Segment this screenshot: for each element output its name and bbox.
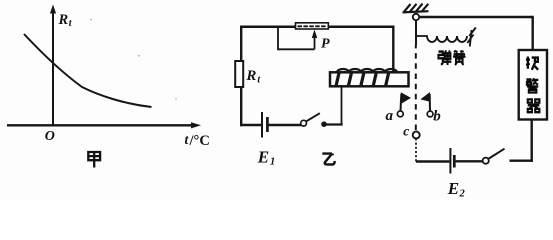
graph x-axis: [7, 122, 201, 128]
svg-text:R: R: [58, 12, 69, 28]
label 乙 (circuit B caption): [322, 153, 334, 164]
rheostat (slide resistor) box: [296, 23, 329, 29]
svg-text:t: t: [69, 18, 73, 29]
wiper arrow P: [312, 30, 317, 50]
label 簧: [453, 51, 465, 65]
contact a triangle: [401, 92, 411, 104]
wire: bottom rail left of battery: [416, 160, 449, 162]
armature solid upper: [415, 20, 417, 45]
wire: alarm right rail lower: [531, 120, 533, 162]
wire: circuit B bottom rail to battery: [240, 124, 261, 126]
wire: alarm right rail upper: [532, 17, 534, 51]
label 弹: [438, 50, 451, 65]
wire: alarm circuit top rail: [419, 16, 534, 18]
electromagnet winding arcs: [337, 69, 397, 72]
contact a stem: [400, 94, 403, 111]
switch S2 lever: [489, 149, 505, 159]
contact b stem: [429, 94, 431, 111]
wire: circuit B right rail into coil: [392, 26, 394, 73]
switch S1 lever: [306, 113, 320, 121]
svg-text:2: 2: [459, 189, 466, 200]
contact a terminal circle: [397, 111, 403, 117]
spring: [417, 36, 468, 42]
scan speck: [90, 19, 92, 21]
wiper tap wire: [278, 27, 315, 50]
wire: alarm bottom rail right: [510, 159, 533, 161]
svg-text:1: 1: [270, 157, 275, 168]
fixed support hatching (pivot anchor): [403, 4, 429, 13]
pivot circle: [413, 14, 419, 20]
wire: c lead (dotted): [415, 139, 417, 162]
svg-text:t: t: [257, 75, 261, 86]
spring anchor slash: [467, 28, 476, 47]
switch S2 pivot circle: [483, 158, 489, 164]
label 甲 (graph caption): [88, 152, 100, 168]
wire: coil down-lead: [341, 86, 343, 125]
contact b terminal circle: [427, 111, 433, 117]
wire: circuit B top rail: [240, 25, 296, 28]
contact c circle: [413, 132, 420, 139]
wire: contact to coil branch: [324, 123, 343, 125]
label 警: [526, 78, 538, 92]
armature dashed lower: [415, 45, 417, 130]
label Rt (resistor): [245, 68, 261, 86]
svg-text:E: E: [257, 148, 269, 167]
svg-text:E: E: [447, 179, 459, 198]
graph y-axis: [50, 5, 56, 127]
rheostat interior track: [298, 25, 327, 27]
svg-text:a: a: [386, 108, 394, 124]
electromagnet core: [330, 72, 409, 86]
wire: battery E2 to switch: [456, 160, 483, 162]
svg-text:O: O: [45, 129, 55, 144]
scan speck: [175, 98, 176, 99]
wire: circuit B left rail lower: [240, 87, 242, 126]
thermistor Rt box: [235, 61, 243, 87]
wire: circuit B left rail upper: [240, 26, 242, 62]
scan speck: [138, 55, 140, 57]
wire: battery to switch: [269, 124, 302, 126]
electromagnet winding cross strokes: [336, 73, 389, 86]
label E2: [447, 179, 466, 200]
label t/°C (x-axis): [185, 132, 210, 149]
svg-text:P: P: [321, 37, 330, 52]
label Rt (y-axis): [58, 12, 73, 29]
contact b triangle: [420, 92, 430, 102]
label 器: [528, 99, 540, 112]
svg-text:c: c: [403, 124, 409, 139]
switch S1 fixed contact dot: [321, 121, 327, 127]
label 报: [526, 57, 538, 70]
switch S1 pivot circle: [301, 120, 307, 126]
svg-text:b: b: [433, 109, 441, 125]
svg-text:R: R: [245, 68, 256, 84]
alarm box: [519, 50, 547, 120]
label E1: [257, 148, 275, 168]
thermistor curve: [24, 34, 152, 107]
battery E1: [262, 112, 267, 138]
svg-text:/°C: /°C: [189, 133, 210, 149]
battery E2: [450, 148, 454, 174]
